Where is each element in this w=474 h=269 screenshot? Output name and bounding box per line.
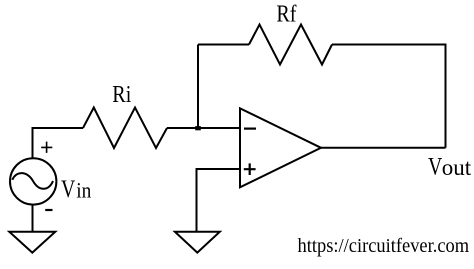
wire non-inverting input to ground <box>197 169 241 231</box>
source Vin circle <box>10 158 56 204</box>
wire feedback top left <box>198 44 249 46</box>
svg-text:https://circuitfever.com: https://circuitfever.com <box>298 235 470 257</box>
svg-text:Rf: Rf <box>276 0 297 27</box>
svg-text:out: out <box>442 155 472 180</box>
wire Ri to op-amp inverting input <box>167 127 240 129</box>
plus polarity label <box>41 142 52 153</box>
ground at source <box>9 232 55 253</box>
wire feedback vertical <box>197 45 199 129</box>
wire from source top to Ri <box>33 128 84 158</box>
minus polarity label <box>45 209 52 211</box>
wire source to ground <box>32 205 34 231</box>
resistor Rf <box>249 25 332 65</box>
svg-text:V: V <box>61 175 76 203</box>
op-amp U1 triangle <box>240 108 321 187</box>
sine wave inside source <box>12 173 53 189</box>
node junction dot <box>195 126 201 130</box>
svg-text:in: in <box>76 179 92 202</box>
op-amp plus symbol <box>244 163 256 175</box>
wire feedback top right and down to output <box>332 45 446 148</box>
resistor Ri <box>83 108 167 149</box>
svg-text:V: V <box>428 152 443 180</box>
svg-text:Ri: Ri <box>112 80 131 107</box>
ground at op-amp <box>175 232 220 253</box>
wire output <box>321 147 446 149</box>
op-amp minus symbol <box>244 128 256 130</box>
